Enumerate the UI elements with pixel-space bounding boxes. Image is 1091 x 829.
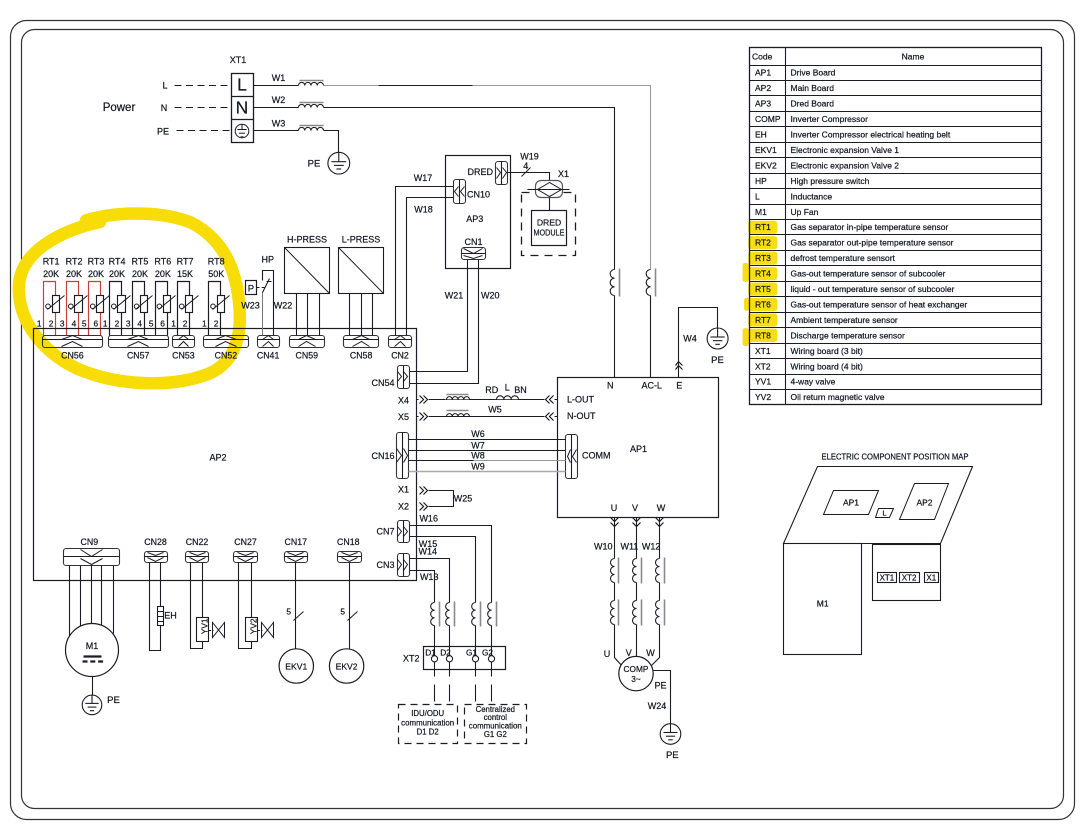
X1 plug chevrons [420,487,424,495]
svg-text:Inverter Compressor electrical: Inverter Compressor electrical heating b… [791,130,951,140]
svg-text:XT2: XT2 [902,574,917,583]
svg-text:E: E [676,380,682,390]
svg-text:RT6: RT6 [755,299,771,309]
wire dashed PE input [177,130,231,132]
connector CN41 [258,336,280,348]
svg-text:20K: 20K [66,269,82,279]
svg-text:Power: Power [103,102,136,114]
svg-text:AC-L: AC-L [641,380,662,390]
svg-text:HP: HP [262,255,275,265]
svg-text:X1: X1 [926,574,936,583]
thermistor RT3 20K [89,282,101,336]
V phase wire to COMP [636,625,638,657]
svg-text:M1: M1 [755,207,767,217]
svg-text:G1 G2: G1 G2 [484,730,507,739]
connector CN58 [344,336,379,348]
W phase wire to COMP [652,625,660,666]
svg-text:RT8: RT8 [208,257,225,267]
wire W4 E to ground [679,308,718,378]
svg-text:communication: communication [401,718,454,727]
connector DRED [496,162,508,185]
ground symbol main PE [328,152,350,174]
svg-text:AP3: AP3 [755,99,771,109]
svg-text:RT7: RT7 [177,257,194,267]
inductor choke on W2 [299,104,324,107]
wire dashed L input [175,85,231,87]
position map terminal box [873,545,941,601]
wire CN17 to EKV1 [295,563,297,649]
svg-text:AP1: AP1 [843,498,859,508]
svg-text:D1 D2: D1 D2 [417,728,439,737]
svg-text:20K: 20K [109,269,125,279]
ground symbol M1 PE [82,695,102,715]
wire W15 CN7 to XT2 G1 [410,537,476,603]
connector CN1 [462,248,486,260]
svg-text:W10: W10 [594,542,613,552]
svg-text:20K: 20K [155,269,171,279]
svg-text:W: W [657,503,666,513]
svg-text:RT5: RT5 [132,257,149,267]
drive board AP1 outline [558,378,719,518]
svg-text:Main Board: Main Board [791,83,835,93]
thermistor RT6 20K [156,282,168,336]
svg-text:Dred Board: Dred Board [791,99,835,109]
svg-text:RT7: RT7 [755,315,771,325]
svg-text:M1: M1 [86,641,99,651]
svg-text:W21: W21 [445,290,464,300]
svg-text:W12: W12 [642,542,661,552]
thermistor RT1 20K [44,282,56,336]
svg-text:4-way valve: 4-way valve [791,377,836,387]
wire W1 to AC-L drop [324,86,651,270]
IDU/ODU communication dashed box [399,705,458,744]
svg-text:W7: W7 [471,440,485,450]
thermistor RT7 15K [178,282,190,336]
electronic expansion valve EKV2 [329,649,363,683]
svg-text:AP1: AP1 [755,68,771,78]
svg-text:CN1: CN1 [464,237,482,247]
svg-text:CN17: CN17 [285,537,308,547]
thermistor RT4 20K [110,282,122,336]
wire W17 CN2 to CN10 [396,187,454,336]
svg-text:4: 4 [137,318,142,328]
svg-text:CN10: CN10 [467,189,490,199]
electronic expansion valve EKV1 [279,649,313,683]
svg-text:RT1: RT1 [755,222,771,232]
inductor choke on D1 comm wire [431,603,435,626]
inductor lower on W11 [633,601,637,625]
svg-text:6: 6 [160,318,165,328]
connector CN53 [173,336,195,348]
inductor lower on W10 [611,601,615,625]
dashed link P to switch [257,287,265,289]
svg-text:P: P [248,284,254,295]
wire W3 to ground [324,131,339,153]
svg-text:L: L [505,383,510,393]
svg-text:Gas-out temperature sensor of: Gas-out temperature sensor of heat excha… [791,299,968,309]
svg-text:CN52: CN52 [215,350,238,360]
pressure sensor P box [246,281,257,295]
svg-text:N: N [236,98,249,118]
svg-text:AP2: AP2 [209,453,226,463]
svg-text:BN: BN [514,385,527,395]
svg-text:W25: W25 [454,493,473,503]
wire G1 below XT2 dashed [475,662,477,677]
svg-text:W9: W9 [471,462,485,472]
svg-text:PE: PE [157,126,169,136]
svg-text:EKV2: EKV2 [755,160,777,170]
H-PRESS wires to CN59 [296,294,298,336]
inductor choke on W1 [299,82,324,85]
HP switch blade [263,279,270,293]
svg-text:AP1: AP1 [630,444,647,454]
YV2 valve loop wires [239,563,252,649]
svg-text:U: U [604,649,611,659]
svg-text:W4: W4 [683,334,697,344]
svg-text:YV2: YV2 [248,618,258,634]
4-way valve coil YV1 [197,618,209,642]
svg-text:5: 5 [340,606,345,616]
wire W20 CN1 to CN54 [410,260,479,384]
svg-text:Electronic expansion Valve 2: Electronic expansion Valve 2 [791,160,900,170]
connector CN7 [398,521,410,543]
svg-text:6: 6 [93,318,98,328]
svg-text:W20: W20 [481,290,500,300]
thermistor RT5 20K [133,282,145,336]
svg-text:CN2: CN2 [391,350,409,360]
E terminal arrow [676,366,683,370]
oil return valve coil YV2 [246,618,258,642]
svg-text:Gas separator out-pipe tempera: Gas separator out-pipe temperature senso… [791,238,954,248]
thermistor RT8 50K [209,282,221,336]
wire D1 below XT2 dashed [434,662,436,677]
wire W7 [409,450,566,452]
svg-text:defrost temperature sensort: defrost temperature sensort [791,253,896,263]
svg-text:N-OUT: N-OUT [567,411,596,421]
connector CN9 [64,549,120,566]
wire W19 DRED to X1 [508,173,550,181]
svg-text:5: 5 [286,606,291,616]
position map AP2 board [900,484,949,520]
svg-text:2: 2 [49,318,54,328]
svg-text:Oil return magnetic valve: Oil return magnetic valve [791,392,885,402]
connector CN3 [398,554,410,577]
svg-text:CN16: CN16 [371,451,394,461]
svg-text:V: V [632,503,638,513]
svg-text:W3: W3 [272,119,286,129]
svg-text:1: 1 [171,318,176,328]
svg-text:V: V [626,648,632,658]
W12 output arrow [656,518,664,522]
main board AP2 outline [34,329,417,581]
svg-text:2: 2 [183,318,188,328]
svg-text:CN22: CN22 [186,537,209,547]
svg-text:RT5: RT5 [755,284,771,294]
position map AP1 board [824,491,879,515]
dashed enclosure around DRED MODULE [522,193,576,256]
svg-text:5: 5 [149,318,154,328]
svg-text:N: N [607,380,614,390]
svg-text:M1: M1 [817,599,829,609]
svg-text:50K: 50K [208,269,224,279]
wire W11 from AP1 [636,518,638,559]
inductor choke on X5 wire [445,411,470,416]
svg-text:W14: W14 [419,546,438,556]
inductor choke on G1 comm wire [472,603,476,626]
svg-text:liquid - out temperature senso: liquid - out temperature sensor of subco… [791,284,955,294]
Centralized control communication dashed box [465,705,527,744]
svg-text:AP3: AP3 [466,214,483,224]
X4 plug chevrons [419,395,429,404]
svg-text:High pressure switch: High pressure switch [791,176,870,186]
svg-text:MODULE: MODULE [534,228,565,238]
svg-text:3: 3 [60,318,65,328]
inductor upper on W10 [611,559,615,583]
wire W12 from AP1 [659,518,661,559]
svg-text:3~: 3~ [631,674,641,684]
legend table yellow highlights RT1-RT8 [748,221,777,234]
wire X5 W5 to N-OUT [417,416,558,418]
svg-text:RT3: RT3 [88,257,105,267]
svg-text:20K: 20K [43,269,59,279]
wire W2 from XT1 N [254,107,299,109]
ground symbol COMP PE [660,724,681,745]
inductor choke on G2 comm wire [488,603,492,626]
svg-text:AP2: AP2 [755,83,771,93]
position map XT2 [900,573,920,583]
svg-text:AP2: AP2 [916,498,932,508]
L-PRESS wires to CN58 [349,294,351,336]
svg-text:L: L [237,75,247,95]
svg-text:3: 3 [126,318,131,328]
svg-text:4: 4 [523,161,528,171]
inductor upper on W11 [633,559,637,583]
X4 socket chevrons at AP1 [545,395,555,404]
svg-text:COMM: COMM [582,451,611,461]
svg-text:CN18: CN18 [337,537,360,547]
wire X4 to L-OUT [417,399,558,401]
HP switch body [263,271,274,336]
inductor choke on D2 comm wire [446,603,450,626]
svg-text:COMP: COMP [624,664,649,674]
svg-text:W18: W18 [414,205,433,215]
wire W6 [409,439,566,441]
svg-text:W6: W6 [471,429,485,439]
svg-text:Gas separator in-pipe temperat: Gas separator in-pipe temperature sensor [791,222,949,232]
svg-text:W24: W24 [648,701,667,711]
svg-text:DRED: DRED [467,167,493,177]
svg-text:RT3: RT3 [755,253,771,263]
X5 socket chevrons at AP1 [545,411,555,420]
connector CN59 [290,336,325,348]
wiring board XT2 [424,647,506,670]
svg-text:5: 5 [82,318,87,328]
YV2 valve symbol [262,623,274,638]
wire W18 CN2 to CN10 [407,198,454,336]
svg-text:PE: PE [711,355,724,366]
svg-text:L: L [755,191,760,201]
svg-text:CN54: CN54 [371,378,394,388]
wire W14 CN3 to XT2 D2 [410,559,450,603]
svg-text:HP: HP [755,176,767,186]
svg-text:RT4: RT4 [755,269,771,279]
svg-text:Drive Board: Drive Board [791,68,836,78]
svg-text:XT1: XT1 [755,346,771,356]
wire W1 from XT1 L [254,85,299,87]
svg-text:EKV1: EKV1 [755,145,777,155]
X5 plug chevrons [419,411,429,420]
svg-text:X5: X5 [398,412,409,422]
DRED MODULE box [532,211,567,246]
inductor choke on W3 [299,127,324,130]
svg-text:CN3: CN3 [376,560,394,570]
position map fan M1 box [784,544,862,655]
wire dashed N input [175,107,231,109]
svg-text:W5: W5 [488,405,502,415]
svg-text:CN59: CN59 [296,350,319,360]
svg-text:CN57: CN57 [127,350,150,360]
XT2 terminal D1 [431,656,437,662]
svg-text:COMP: COMP [755,114,781,124]
inductor L on AC-L line [646,270,650,296]
svg-text:20K: 20K [132,269,148,279]
svg-text:EKV1: EKV1 [285,661,307,671]
wire W8 [409,460,474,462]
svg-text:CN7: CN7 [376,527,394,537]
svg-text:YV1: YV1 [200,618,210,634]
svg-text:W1: W1 [272,73,286,83]
svg-text:RT4: RT4 [109,257,126,267]
svg-text:RD: RD [485,385,498,395]
inductor upper on W12 [656,559,660,583]
svg-text:XT1: XT1 [880,574,895,583]
svg-text:1: 1 [202,318,207,328]
wire AC-L drop to AP1 [650,296,652,378]
connector CN56 [43,336,103,348]
svg-text:RT8: RT8 [755,330,771,340]
position map top surface [784,467,973,544]
low pressure sensor L-PRESS box [339,248,384,294]
W19 bundle slash [522,168,531,177]
svg-text:YV1: YV1 [755,377,771,387]
svg-text:CN56: CN56 [61,350,84,360]
inverter compressor COMP [619,656,653,690]
up fan M1 [66,624,119,677]
wire G2 to XT2 [491,626,493,656]
EH heater loop wires [150,563,161,651]
position map X1 [925,573,939,583]
svg-text:15K: 15K [177,269,193,279]
svg-text:1: 1 [103,318,108,328]
svg-text:L-PRESS: L-PRESS [342,235,381,245]
svg-text:L: L [882,509,886,518]
svg-text:CN58: CN58 [350,350,373,360]
svg-text:L: L [162,81,167,91]
svg-text:W17: W17 [414,173,433,183]
svg-text:Wiring board (3 bit): Wiring board (3 bit) [791,346,863,356]
svg-text:4: 4 [72,318,77,328]
wire D2 to XT2 [449,626,451,656]
svg-text:PE: PE [666,750,679,761]
svg-text:W22: W22 [274,301,293,311]
yellow highlighter circle around RT sensors [19,213,240,383]
connector CN18 [338,552,362,563]
svg-text:Name: Name [902,52,925,62]
svg-text:EKV2: EKV2 [336,661,358,671]
svg-text:RT2: RT2 [66,257,83,267]
svg-text:XT2: XT2 [755,361,771,371]
svg-text:X2: X2 [398,501,409,511]
svg-text:ELECTRIC COMPONENT POSITION MA: ELECTRIC COMPONENT POSITION MAP [822,452,969,462]
inductor lower on W12 [656,601,660,625]
svg-text:2: 2 [115,318,120,328]
high pressure sensor H-PRESS box [285,248,330,294]
svg-text:X1: X1 [558,169,569,179]
svg-text:X1: X1 [398,484,409,494]
wire W13 CN3 to XT2 D1 [410,571,435,603]
W10 output arrow [611,518,619,522]
svg-text:H-PRESS: H-PRESS [287,235,327,245]
ground symbol W4 PE [707,328,728,349]
YV1 valve symbol [213,623,225,638]
svg-text:W11: W11 [620,542,638,552]
XT2 terminal D2 [446,656,452,662]
svg-text:RT1: RT1 [43,257,60,267]
svg-text:2: 2 [214,318,219,328]
inductor choke on X4 wire [445,394,470,399]
YV1 valve loop wires [191,563,203,649]
connector CN22 [186,552,209,563]
svg-text:Ambient temperature sensor: Ambient temperature sensor [791,315,898,325]
position map inductance L [876,509,894,518]
wire W25 loop [429,491,454,507]
svg-text:DRED: DRED [537,217,561,227]
svg-text:20K: 20K [88,269,104,279]
thermistor RT2 20K [67,282,79,336]
dred board AP3 outline [446,156,511,269]
svg-text:W2: W2 [272,95,286,105]
wire W2 to N drop [324,108,615,270]
svg-text:XT2: XT2 [403,654,420,664]
XT1 PE terminal earth symbol [235,124,249,138]
wire W21 CN1 to CN54 [410,260,468,372]
wire D2 below XT2 dashed [449,662,451,677]
U phase wire to COMP [615,625,623,667]
svg-text:Inductance: Inductance [791,191,833,201]
svg-text:Up Fan: Up Fan [791,207,819,217]
wire W3 from XT1 PE [254,130,299,132]
wire D1 to XT2 [434,626,436,656]
connector CN27 [234,552,258,563]
svg-text:PE: PE [107,695,120,706]
wire G1 to XT2 [475,626,477,656]
connector CN2 [389,336,412,348]
svg-text:Wiring board (4 bit): Wiring board (4 bit) [791,361,863,371]
svg-text:N: N [161,103,168,113]
connector CN57 [109,336,169,348]
X2 plug chevrons [420,503,424,511]
svg-text:CN41: CN41 [257,350,280,360]
svg-text:CN27: CN27 [234,537,257,547]
svg-text:XT1: XT1 [230,55,247,65]
wire N drop to AP1 [614,296,616,378]
svg-text:Inverter Compressor: Inverter Compressor [791,114,869,124]
svg-text:EH: EH [755,130,767,140]
connector CN52 [204,336,249,348]
svg-text:W16: W16 [419,514,438,524]
svg-text:W: W [646,648,655,658]
connector X1 socket [536,181,563,198]
